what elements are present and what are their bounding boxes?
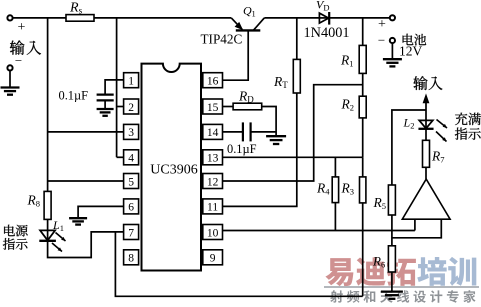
- wire R5 to R6: [391, 215, 393, 246]
- wire comparator left input to pin10 line: [414, 219, 416, 230]
- label battery 12V: [399, 34, 426, 59]
- wire input+ to Rs: [13, 17, 66, 19]
- wire pin3: [48, 131, 124, 133]
- svg-text:1: 1: [128, 76, 134, 88]
- wire top rail to R8: [47, 18, 49, 192]
- wire pin7 junction to bottom rail: [115, 232, 362, 296]
- R6 ground: [381, 292, 403, 299]
- svg-text:13: 13: [207, 153, 219, 165]
- battery - terminal: [378, 33, 395, 48]
- svg-text:16: 16: [207, 76, 219, 88]
- wire comparator apex to R7: [425, 167, 427, 179]
- svg-text:14: 14: [207, 127, 219, 139]
- wire Q1 base to pin16: [223, 30, 249, 80]
- L1 light arrows: [52, 233, 66, 252]
- svg-text:+: +: [378, 17, 386, 32]
- svg-text:9: 9: [210, 253, 216, 265]
- wire R3 to bottom rail: [362, 203, 364, 296]
- svg-text:4: 4: [128, 153, 134, 165]
- svg-text:2: 2: [128, 102, 134, 114]
- wire L1 to pin7 riser: [48, 232, 124, 258]
- wire pin1 to cap: [105, 80, 124, 94]
- pin6 ground: [69, 218, 87, 224]
- svg-text:12V: 12V: [399, 44, 423, 59]
- svg-text:VD: VD: [316, 0, 329, 13]
- svg-text:6: 6: [128, 202, 134, 214]
- LED L1: [39, 218, 64, 241]
- resistor R6: [372, 246, 395, 272]
- wire R5R6 junction to comparator right input: [392, 219, 441, 238]
- battery ground: [383, 43, 402, 66]
- op-amp comparator A1: [402, 179, 450, 219]
- wire pin13 line to R4: [334, 157, 336, 177]
- label charge-full indicator: [455, 113, 481, 140]
- svg-text:TIP42C: TIP42C: [201, 31, 243, 46]
- capacitor 0.1uF right: [227, 122, 257, 156]
- LED L2: [403, 116, 434, 131]
- capacitor 0.1uF left: [59, 88, 114, 102]
- L2 light arrows: [436, 120, 447, 142]
- svg-text:8: 8: [128, 253, 134, 265]
- input - terminal: [7, 53, 22, 71]
- svg-text:1: 1: [252, 9, 256, 19]
- wire top to battery+: [264, 17, 390, 19]
- svg-text:15: 15: [207, 102, 219, 114]
- svg-text:0.1µF: 0.1µF: [227, 142, 257, 156]
- input + terminal: [7, 15, 25, 35]
- wire pin2 stub: [117, 106, 124, 108]
- wire pin13 to R2R3 junction: [223, 156, 363, 158]
- wire pin4 stub: [117, 156, 124, 158]
- svg-text:5: 5: [128, 176, 134, 188]
- RD ground: [266, 136, 286, 144]
- resistor R4: [316, 177, 339, 203]
- resistor R2: [341, 96, 367, 118]
- input ground: [1, 71, 20, 95]
- svg-text:12: 12: [207, 176, 219, 188]
- transistor Q1: [201, 4, 265, 47]
- wire L2 junction to R5: [392, 110, 426, 185]
- wire pin6 to ground: [78, 206, 124, 217]
- svg-text:1N4001: 1N4001: [304, 25, 350, 41]
- svg-text:7: 7: [128, 227, 134, 239]
- wire cap right to ground drop: [251, 131, 276, 133]
- resistor R5: [373, 185, 396, 215]
- wire L2 up arrow input: [423, 93, 430, 120]
- resistor RT: [273, 59, 300, 93]
- resistor R8: [27, 191, 52, 219]
- svg-text:UC3906: UC3906: [150, 162, 197, 177]
- svg-text:+: +: [18, 20, 26, 35]
- wire pin5: [48, 180, 124, 182]
- wire RD to ground drop: [262, 107, 276, 136]
- label input left: [10, 40, 41, 54]
- wire top rail to pin4: [116, 18, 118, 157]
- wire R7 to L2: [425, 129, 427, 141]
- resistor R1: [340, 45, 366, 73]
- wire Rs to Q1 emitter: [94, 17, 231, 19]
- wire R1 to R2: [362, 73, 364, 96]
- watermark logo: [324, 257, 479, 303]
- resistor RD: [233, 88, 262, 109]
- wire pin14 to cap: [223, 131, 243, 133]
- wire pin12 riser: [223, 85, 363, 181]
- svg-text:10: 10: [207, 227, 219, 239]
- svg-text:11: 11: [207, 202, 218, 214]
- wire pin10 to comparator: [223, 230, 415, 232]
- label power indicator: [3, 225, 28, 250]
- battery + terminal: [378, 15, 395, 32]
- wire top rail to R1: [362, 18, 364, 46]
- wire R2 down to pin13 line: [362, 118, 364, 157]
- wire R4 to pin10 line: [334, 203, 336, 231]
- wire pin11 to RT: [223, 93, 297, 206]
- wire pin15 to RD: [223, 106, 234, 108]
- svg-text:3: 3: [128, 127, 134, 139]
- svg-text:0.1µF: 0.1µF: [59, 88, 89, 102]
- wire junction to R3: [362, 157, 364, 177]
- svg-text:−: −: [378, 33, 385, 48]
- resistor R3: [341, 177, 366, 203]
- resistor Rs: [66, 0, 94, 21]
- IC pin boxes 1-16: [124, 73, 223, 265]
- label input right: [413, 76, 442, 90]
- svg-text:−: −: [15, 53, 22, 68]
- resistor R7: [423, 140, 445, 167]
- diode VD 1N4001: [304, 0, 350, 41]
- op-amp U1 UC3906 body: [142, 64, 202, 271]
- wire RT to top rail: [296, 18, 298, 60]
- cap left ground: [97, 102, 114, 116]
- wire R6 to ground: [391, 272, 393, 291]
- wire R8 to L1: [47, 219, 49, 230]
